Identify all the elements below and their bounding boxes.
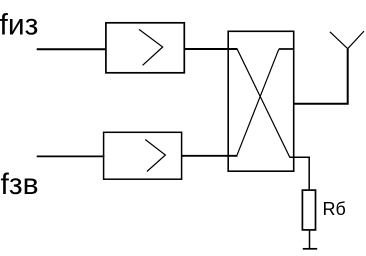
- resistor R6 body: [302, 190, 315, 230]
- antenna right arm: [348, 31, 364, 49]
- mixer U1 box: [228, 31, 294, 171]
- wire mixer output to antenna: [294, 49, 348, 104]
- antenna left arm: [330, 32, 348, 49]
- amplifier A2 box: [104, 132, 182, 179]
- ground terminal: [303, 248, 317, 250]
- wire mixer bottom-right stub to resistor: [290, 157, 310, 190]
- wire A2 to mixer: [182, 155, 238, 157]
- mixer U1 cross line B: [237, 49, 279, 155]
- svg-text:Rб: Rб: [323, 199, 346, 219]
- svg-text:fиз: fиз: [0, 8, 38, 41]
- amplifier A1 chevron: [139, 29, 163, 65]
- wire resistor to terminal: [309, 230, 311, 249]
- wire mixer top-right stub: [279, 48, 294, 50]
- mixer U1 cross line A: [237, 49, 290, 157]
- svg-text:fзв: fзв: [1, 168, 39, 201]
- wire A1 to mixer: [184, 48, 238, 50]
- wire fzv input: [37, 155, 105, 157]
- amplifier A2 chevron: [145, 140, 165, 172]
- amplifier A1 box: [106, 23, 184, 73]
- wire fiz input: [37, 48, 107, 50]
